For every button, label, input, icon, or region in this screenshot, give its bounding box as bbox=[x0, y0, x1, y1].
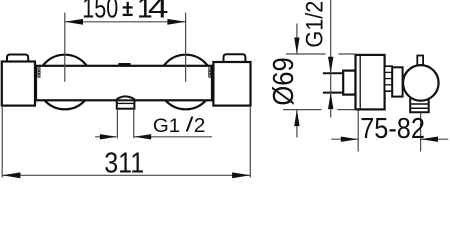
dimension 311 extension line left bbox=[1, 107, 3, 178]
mixer bar body bbox=[36, 66, 212, 101]
right knob circle bbox=[158, 55, 213, 110]
outlet extension line left bbox=[116, 109, 118, 139]
dimension 75-82 line left bbox=[331, 138, 358, 140]
right handle cap bbox=[224, 54, 246, 63]
knob grip bbox=[410, 98, 429, 113]
dimension G1/2 line right segment bbox=[134, 136, 212, 138]
dimension Ø69 bottom extension line bbox=[283, 109, 322, 111]
outlet nut bbox=[117, 100, 135, 108]
75-82 left arrow bbox=[341, 137, 358, 142]
knob grip line 1 bbox=[410, 103, 429, 105]
dimension G1/2 side leader bbox=[330, 0, 332, 118]
dimension 311 left arrow bbox=[2, 172, 20, 178]
side knob circle bbox=[403, 65, 439, 101]
dimension G1/2 left arrow bbox=[100, 134, 117, 139]
svg-text:75-82: 75-82 bbox=[360, 112, 425, 144]
dimension 150±14 left arrow bbox=[65, 19, 83, 25]
svg-text:G1: G1 bbox=[153, 115, 180, 136]
outlet extension line right bbox=[133, 109, 135, 139]
escutcheon body bbox=[356, 55, 385, 110]
dimension G1/2 right arrow bbox=[134, 134, 151, 139]
dimension 150±14 right arrow bbox=[167, 19, 185, 25]
dimension 150±14 extension line left bbox=[64, 13, 66, 82]
top edge behind bar above outlet bbox=[118, 63, 130, 65]
right junction marks bbox=[209, 68, 211, 77]
svg-text:2: 2 bbox=[194, 114, 206, 136]
adapter ridges bbox=[385, 66, 393, 91]
union nut bbox=[343, 71, 355, 95]
dimension 311 extension line right bbox=[249, 107, 251, 178]
escutcheon inner line bbox=[359, 55, 361, 110]
left knob circle bbox=[38, 55, 93, 110]
svg-text:311: 311 bbox=[104, 147, 144, 179]
left handle bbox=[2, 62, 35, 106]
svg-text:4: 4 bbox=[148, 0, 169, 24]
svg-text:Ø69: Ø69 bbox=[268, 57, 300, 105]
dimension 311 line bbox=[2, 174, 250, 176]
svg-text:150: 150 bbox=[82, 0, 118, 25]
knob hub bbox=[392, 67, 402, 96]
knob grip line 2 bbox=[410, 107, 429, 109]
dimension Ø69 lower line and arrow bbox=[296, 110, 298, 138]
svg-text:G1/2: G1/2 bbox=[300, 1, 327, 48]
dimension 75-82 right extension line bbox=[420, 113, 422, 152]
dimension Ø69 top extension line bbox=[286, 53, 326, 55]
G1/2 side up arrow bbox=[328, 93, 333, 110]
wall pipe bottom line bbox=[323, 92, 343, 94]
G1/2 side down arrow bbox=[328, 57, 333, 73]
dimension Ø69 upper line and arrow bbox=[296, 24, 298, 55]
75-82 right arrow bbox=[421, 137, 438, 142]
dimension 150±14 line bbox=[65, 21, 186, 23]
dimension G1/2 line left segment bbox=[95, 136, 117, 138]
dimension 75-82 left extension line bbox=[357, 111, 359, 152]
left handle cap bbox=[7, 55, 28, 63]
knob stem bbox=[417, 56, 423, 67]
wall pipe top line bbox=[323, 72, 343, 74]
dimension 311 right arrow bbox=[232, 172, 250, 178]
right handle bbox=[213, 62, 250, 106]
left junction marks bbox=[38, 68, 40, 77]
dimension 75-82 line right bbox=[421, 138, 449, 140]
svg-text:/: / bbox=[186, 114, 194, 136]
dimension 150±14 extension line right bbox=[185, 13, 187, 82]
outlet nut inner line bbox=[117, 102, 135, 104]
outlet dome bbox=[117, 96, 135, 100]
